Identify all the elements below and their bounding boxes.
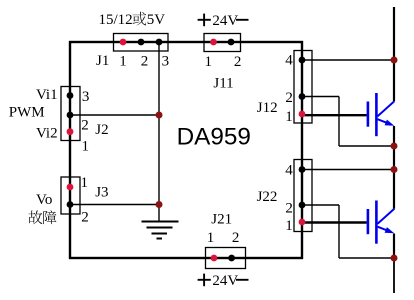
label 故障 bbox=[28, 211, 42, 225]
wire: J22 pin4 to right rail bbox=[302, 169, 394, 171]
transistor Q2 (IGBT) bbox=[368, 201, 394, 244]
wire: J12 pin4 to right rail bbox=[302, 59, 394, 61]
wire: J1 pin3 vertical drop to ground node bbox=[158, 42, 160, 205]
wire: J12 pin2 right bbox=[302, 96, 339, 98]
node D junction T1 emitter bbox=[391, 143, 398, 150]
svg-text:1: 1 bbox=[81, 175, 89, 191]
svg-text:3: 3 bbox=[82, 89, 90, 105]
connector J21 box bbox=[206, 248, 246, 269]
svg-text:2: 2 bbox=[81, 118, 89, 134]
svg-text:Vi1: Vi1 bbox=[36, 87, 58, 103]
wire: into T2 emitter node bbox=[339, 257, 394, 259]
J12 pin2 dot bbox=[299, 93, 306, 100]
J2 pin1 dot bbox=[67, 128, 74, 135]
svg-text:J22: J22 bbox=[257, 189, 278, 205]
connector J22 box bbox=[294, 160, 312, 232]
svg-text:3: 3 bbox=[162, 53, 170, 69]
node E junction rail/J22 pin4 bbox=[391, 166, 398, 173]
wire: J12 pin1 gate wire T1 bbox=[302, 114, 367, 116]
ground bbox=[142, 222, 179, 239]
svg-text:2: 2 bbox=[81, 210, 89, 226]
svg-text:1: 1 bbox=[205, 54, 213, 70]
wire: ground stem bbox=[158, 205, 160, 222]
connector J12 box bbox=[294, 51, 312, 124]
svg-text:1: 1 bbox=[82, 138, 90, 154]
svg-text:1: 1 bbox=[119, 53, 127, 69]
svg-text:J3: J3 bbox=[95, 185, 108, 201]
svg-text:1: 1 bbox=[285, 109, 293, 125]
svg-text:24V: 24V bbox=[212, 273, 238, 289]
node A junction bbox=[156, 112, 163, 119]
right rail middle segment bbox=[393, 126, 395, 209]
J2 pin2 dot bbox=[67, 112, 74, 119]
J11 pin2 dot bbox=[228, 39, 235, 46]
main module box DA959 outline bbox=[70, 42, 302, 258]
J3 pin1 dot bbox=[67, 184, 74, 191]
J22 pin1 dot bbox=[299, 219, 306, 226]
svg-text:2: 2 bbox=[234, 54, 242, 70]
svg-text:J1: J1 bbox=[96, 53, 109, 69]
node C junction rail/J12 pin4 bbox=[391, 57, 398, 64]
J22 pin4 dot bbox=[299, 166, 306, 173]
wire: J22 pin2 right bbox=[302, 204, 339, 206]
svg-text:2: 2 bbox=[232, 230, 240, 246]
svg-text:Vo: Vo bbox=[36, 192, 52, 208]
wire: J2 pin2 to node A bbox=[70, 114, 159, 116]
wire: J22 pin1 gate wire T2 bbox=[302, 221, 367, 223]
connector J3 box bbox=[61, 177, 80, 214]
J21 pin2 dot bbox=[228, 255, 235, 262]
label +24V- top bbox=[198, 14, 249, 27]
svg-text:2: 2 bbox=[285, 90, 293, 106]
svg-text:5V: 5V bbox=[147, 12, 166, 28]
svg-text:J11: J11 bbox=[213, 75, 233, 91]
J12 pin1 dot bbox=[299, 111, 306, 118]
svg-text:DA959: DA959 bbox=[177, 124, 251, 151]
node F junction T2 emitter bbox=[391, 255, 398, 262]
connector J11 box bbox=[204, 34, 241, 52]
J1 pin2 dot bbox=[138, 39, 145, 46]
J1 pin1 dot bbox=[120, 39, 127, 46]
connector J1 box bbox=[114, 34, 169, 52]
svg-text:J12: J12 bbox=[257, 100, 278, 116]
J3 pin2 dot bbox=[67, 201, 74, 208]
svg-text:Vi2: Vi2 bbox=[36, 126, 58, 142]
svg-text:J21: J21 bbox=[211, 211, 232, 227]
svg-text:1: 1 bbox=[207, 230, 215, 246]
svg-text:1: 1 bbox=[285, 218, 293, 234]
svg-text:24V: 24V bbox=[212, 13, 238, 29]
connector J2 box bbox=[61, 87, 80, 141]
node B junction bbox=[156, 201, 163, 208]
svg-text:15/12: 15/12 bbox=[99, 12, 133, 28]
svg-text:4: 4 bbox=[285, 163, 293, 179]
J11 pin1 dot bbox=[210, 39, 217, 46]
svg-text:2: 2 bbox=[285, 200, 293, 216]
svg-text:J2: J2 bbox=[95, 122, 108, 138]
J22 pin2 dot bbox=[299, 202, 306, 209]
wire: J3 pin2 to node B bbox=[70, 204, 159, 206]
wire: rail below T2 emitter node bbox=[393, 258, 395, 293]
J12 pin4 dot bbox=[299, 57, 306, 64]
wire: into T1 emitter node bbox=[339, 145, 394, 147]
J2 pin3 dot bbox=[67, 92, 74, 99]
svg-text:4: 4 bbox=[285, 52, 293, 68]
J1 pin3 dot bbox=[156, 39, 163, 46]
svg-text:PWM: PWM bbox=[9, 105, 45, 121]
wire: J22 pin2 down bbox=[338, 205, 340, 258]
svg-text:2: 2 bbox=[141, 53, 149, 69]
transistor Q1 (IGBT) bbox=[368, 93, 394, 136]
right rail bottom segment bbox=[393, 234, 395, 259]
wire: J12 pin2 down bbox=[338, 97, 340, 147]
J21 pin1 dot bbox=[211, 255, 218, 262]
label +24V- bottom bbox=[198, 274, 249, 287]
right rail top segment bbox=[393, 7, 395, 101]
